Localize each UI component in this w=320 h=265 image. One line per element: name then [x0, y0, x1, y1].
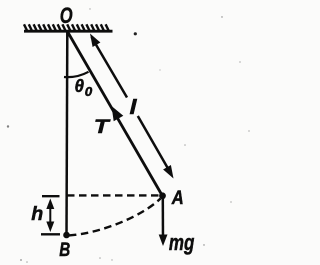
- rod O-A: [68, 33, 163, 197]
- node A dot: [159, 192, 166, 199]
- svg-text:B: B: [59, 239, 70, 261]
- svg-text:T: T: [94, 116, 112, 138]
- h dimension bottom tick: [41, 233, 60, 235]
- length dimension line l (upper segment with up arrow): [90, 34, 174, 179]
- h double arrow: [46, 199, 54, 233]
- ceiling line: [24, 30, 113, 33]
- node B dot: [63, 232, 70, 239]
- svg-text:A: A: [171, 187, 184, 209]
- ceiling hatching: [24, 24, 109, 30]
- h dimension top tick: [42, 195, 60, 197]
- svg-text:mg: mg: [169, 230, 195, 255]
- svg-text:l: l: [130, 97, 138, 119]
- svg-text:0: 0: [85, 84, 93, 99]
- scan speckles: [134, 32, 137, 35]
- wire vertical line O-B: [65, 32, 68, 235]
- svg-text:θ: θ: [75, 76, 85, 96]
- angle arc theta0: [64, 72, 89, 77]
- dashed horizontal line at A level: [67, 194, 159, 196]
- svg-text:h: h: [31, 203, 43, 225]
- svg-text:O: O: [60, 3, 73, 28]
- dashed arc B to A: [69, 199, 161, 236]
- tension arrow T head on rod: [112, 106, 124, 121]
- weight vector mg: [162, 198, 165, 242]
